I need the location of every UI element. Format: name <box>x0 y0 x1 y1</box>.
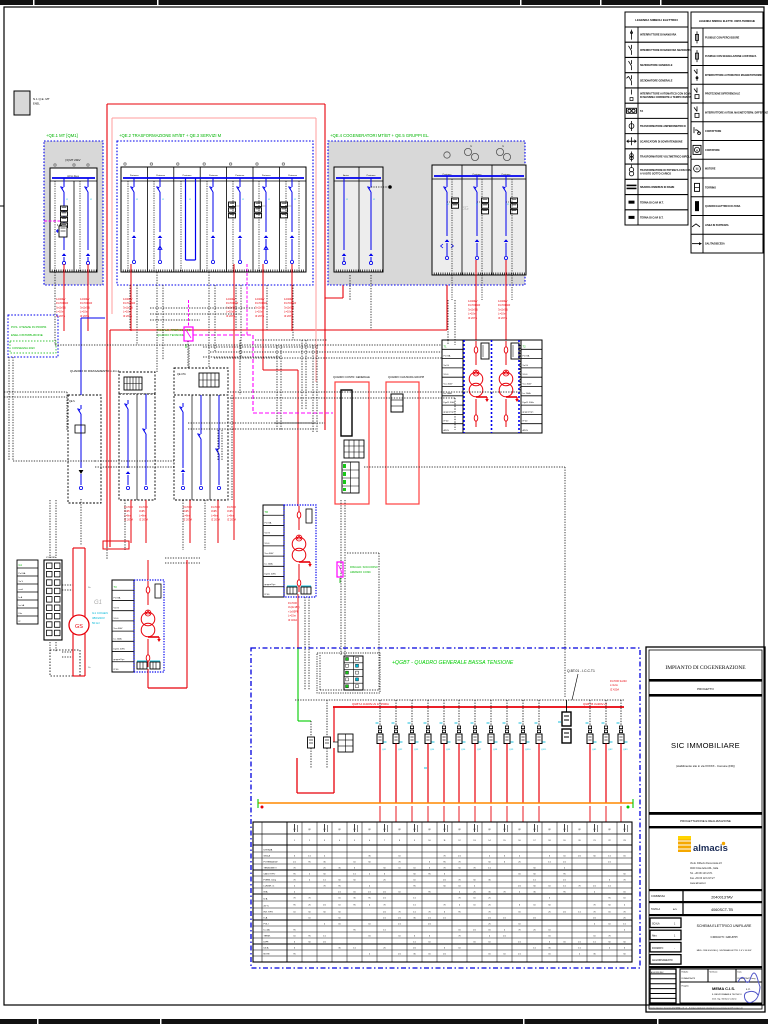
svg-text:Via E. Filiberto Duca Aosta 23: Via E. Filiberto Duca Aosta 23 <box>690 862 722 865</box>
svg-text:AGGIORN./REV.: AGGIORN./REV. <box>651 971 664 974</box>
QE.4 arrivo switch <box>342 178 346 265</box>
svg-text:IP 00: IP 00 <box>444 421 450 423</box>
BT cable drop rif2 <box>139 500 148 543</box>
red MT ring wire right vertical <box>324 104 326 430</box>
svg-text:M: M <box>696 167 699 171</box>
panel QE.RIF body <box>119 394 155 500</box>
QE.2 column aux dashed drops <box>128 181 299 272</box>
svg-text:12/20kV: 12/20kV <box>123 297 133 301</box>
svg-text:IZ 207A: IZ 207A <box>80 314 89 318</box>
QGBT feeder QF8 <box>487 700 499 822</box>
progettazione row <box>649 819 762 828</box>
svg-text:50 Hz: 50 Hz <box>92 621 100 625</box>
MT cable drop QE.1 out2 <box>80 264 92 331</box>
svg-text:12/20kV: 12/20kV <box>498 299 508 303</box>
svg-text:QE.S: QE.S <box>69 400 75 403</box>
svg-text:FUSIBILE CON SEGNALAZIONE A DI: FUSIBILE CON SEGNALAZIONE A DISTANZA <box>705 55 757 58</box>
QGBT feeder QR2 <box>602 700 614 822</box>
svg-text:AGGIORNAMENTO: AGGIORNAMENTO <box>652 959 673 962</box>
svg-text:Vn kV: Vn kV <box>265 533 271 535</box>
svg-text:L=10m: L=10m <box>56 310 64 314</box>
QGBT aux caption <box>567 669 595 700</box>
svg-text:52: 52 <box>268 199 270 201</box>
svg-text:TERM.: TERM. <box>264 936 271 938</box>
QE.2 trafo 1 switch <box>229 178 243 264</box>
svg-text:3x(1x95): 3x(1x95) <box>80 305 90 309</box>
QE.5 generator feeder 2 <box>474 176 489 260</box>
T3 outgoing red loop <box>148 560 187 688</box>
svg-text:Partenza: Partenza <box>235 174 245 177</box>
MT cable drop QE.2 out4 <box>284 264 296 331</box>
svg-text:FORMATO: FORMATO <box>652 947 663 950</box>
svg-text:IZ 207A: IZ 207A <box>139 518 148 522</box>
svg-text:3x(1x95): 3x(1x95) <box>255 305 265 309</box>
svg-text:12/20kV: 12/20kV <box>468 299 478 303</box>
QE.5 generator feeder 1 <box>441 176 459 260</box>
red wire branch to QE.4 <box>325 272 343 298</box>
transformer TR <box>292 506 312 592</box>
BT cable drop uta1 <box>183 500 192 543</box>
trafo bay blue cell borders <box>464 340 519 433</box>
svg-text:Fax +39 06 123 2171/7: Fax +39 06 123 2171/7 <box>690 877 715 880</box>
MT cable drop QE.2 out2 long <box>226 264 238 540</box>
svg-text:LEGENDA SIMBOLI ELETTRICI: LEGENDA SIMBOLI ELETTRICI <box>635 18 678 22</box>
QGBT feeder QF6 <box>455 700 467 822</box>
title impianto <box>649 665 762 682</box>
pink spare ring left <box>111 118 113 314</box>
QE.1 aux dashed wires <box>55 181 80 272</box>
svg-text:gruppo Dyn: gruppo Dyn <box>444 410 456 413</box>
QGBT feeder QF10 <box>519 700 532 822</box>
red MT ring wire top <box>107 103 325 105</box>
svg-text:G1: G1 <box>94 600 102 606</box>
svg-text:FG7OR 3x240: FG7OR 3x240 <box>610 679 627 683</box>
svg-text:CAVO TIPO: CAVO TIPO <box>264 873 276 876</box>
dashed terminal box left <box>50 650 80 676</box>
svg-text:Dyn11 50Hz: Dyn11 50Hz <box>114 649 125 651</box>
BT cable drop uta2 <box>211 500 220 543</box>
generator name <box>88 587 108 669</box>
svg-text:G1: G1 <box>19 563 23 567</box>
svg-text:IZ 207A: IZ 207A <box>498 316 507 320</box>
svg-text:SBARRA OMNIBUS IN RAME: SBARRA OMNIBUS IN RAME <box>640 186 675 189</box>
QGBT earth bus orange <box>258 799 633 808</box>
svg-text:+QGBT - QUADRO GENERALE BASSA: +QGBT - QUADRO GENERALE BASSA TENSIONE <box>392 660 514 666</box>
svg-text:TORRINO: TORRINO <box>705 186 716 189</box>
svg-text:Pn kVA: Pn kVA <box>444 355 451 358</box>
svg-text:UTENZA: UTENZA <box>264 849 273 852</box>
svg-text:Altro: Altro <box>652 935 657 938</box>
svg-text:Vn V: Vn V <box>19 581 24 583</box>
QE.2 riser switch <box>210 178 216 264</box>
svg-text:Dyn11 50Hz: Dyn11 50Hz <box>265 574 276 576</box>
T3 terminal strips <box>137 661 160 669</box>
QGBT feeder QF4 <box>424 700 436 822</box>
svg-text:L=8m: L=8m <box>183 513 190 517</box>
svg-text:QR2: QR2 <box>608 749 613 751</box>
svg-text:52: 52 <box>346 199 348 201</box>
svg-text:Partenza: Partenza <box>130 174 140 177</box>
svg-text:L=12m: L=12m <box>610 683 618 687</box>
svg-text:Vn kV: Vn kV <box>523 365 529 367</box>
svg-text:TA: TA <box>640 110 643 113</box>
svg-text:CONTATORE: CONTATORE <box>705 149 720 152</box>
almacis address <box>690 862 722 885</box>
svg-text:Icc kA: Icc kA <box>19 604 25 607</box>
svg-text:Partenza: Partenza <box>156 174 166 177</box>
svg-text:QR1: QR1 <box>592 749 597 751</box>
QE.2 feeder 2 switch <box>157 178 163 264</box>
svg-text:L=10m: L=10m <box>226 310 234 314</box>
svg-text:Q.BT.01 - I.C.C.T1: Q.BT.01 - I.C.C.T1 <box>567 669 595 673</box>
svg-text:3x95: 3x95 <box>211 509 217 513</box>
MT delivery box <box>14 91 50 115</box>
svg-text:SCARICATORI DI SOVRATENSIONE: SCARICATORI DI SOVRATENSIONE <box>640 140 683 143</box>
svg-text:In A: In A <box>264 917 268 920</box>
fineprint <box>649 1004 762 1010</box>
svg-text:INTERRUTTORE DI MANOVRA: INTERRUTTORE DI MANOVRA <box>640 34 677 37</box>
svg-text:52: 52 <box>294 199 296 201</box>
red wire horizontal mid <box>110 329 447 331</box>
svg-text:TERNA DI CAVI M.T.: TERNA DI CAVI M.T. <box>640 201 664 204</box>
svg-text:FG7OR: FG7OR <box>139 505 148 509</box>
svg-text:CONTATTORE: CONTATTORE <box>705 130 722 133</box>
svg-text:QUADRO ELETTRICO DI ZONA: QUADRO ELETTRICO DI ZONA <box>705 205 741 208</box>
svg-text:QF10: QF10 <box>525 749 531 751</box>
svg-text:MEMA C.I.S.: MEMA C.I.S. <box>712 986 735 991</box>
svg-text:G1 COGEN: G1 COGEN <box>92 611 108 615</box>
legend table: LEGENDA SIMBOLI ELETTRICI <box>625 12 697 225</box>
svg-text:Icc 20kA: Icc 20kA <box>523 392 532 395</box>
QE.1 earth switch detail <box>57 225 67 237</box>
transformer T2 <box>499 341 519 427</box>
legend table: LEGENDA SIMBOLI ELETTRICI UNITA TERMICHE <box>691 12 768 253</box>
red wire feeder from QE.5 col1 <box>446 258 448 330</box>
control panel P4 <box>335 382 369 504</box>
commessa row <box>649 889 762 903</box>
QGBT feeder QF9 <box>503 700 515 822</box>
svg-text:3x95: 3x95 <box>183 509 189 513</box>
svg-text:N.1 Q.E. MT: N.1 Q.E. MT <box>33 97 50 101</box>
svg-text:Partenza: Partenza <box>183 174 193 177</box>
svg-text:gruppo Dyn: gruppo Dyn <box>114 658 126 661</box>
svg-text:52: 52 <box>476 204 478 206</box>
svg-text:Partenza: Partenza <box>209 174 219 177</box>
svg-text:12/20kV: 12/20kV <box>56 297 66 301</box>
svg-text:FG7OH1R: FG7OH1R <box>123 301 135 305</box>
magenta control wire run <box>193 264 333 413</box>
inverter caption <box>157 328 192 337</box>
svg-text:IZ 207A: IZ 207A <box>56 314 65 318</box>
panel QE.UTA body <box>174 395 228 500</box>
bay T3 label panel <box>112 580 134 672</box>
svg-text:Icc 20kA: Icc 20kA <box>444 392 453 395</box>
inverter box <box>184 300 193 348</box>
svg-text:TENSIONE V: TENSIONE V <box>264 868 278 870</box>
svg-text:X1 MORS.: X1 MORS. <box>46 557 57 559</box>
QGBT feeder QF5 <box>440 700 452 822</box>
svg-text:3x(1x95): 3x(1x95) <box>498 307 508 311</box>
svg-text:IZ 207A: IZ 207A <box>226 314 235 318</box>
svg-text:gruppo Dyn: gruppo Dyn <box>265 583 277 586</box>
svg-text:SCHEMA ELETTRICO UNIFILARE: SCHEMA ELETTRICO UNIFILARE <box>697 924 752 928</box>
svg-text:www.almacis.it: www.almacis.it <box>690 882 706 885</box>
svg-text:ARMADIO COND.: ARMADIO COND. <box>350 570 371 574</box>
svg-text:Vcc 400V: Vcc 400V <box>523 384 533 386</box>
panel QE.SERV <box>68 395 101 503</box>
svg-text:TERNA DI CAVI B.T.: TERNA DI CAVI B.T. <box>640 216 664 219</box>
svg-text:52: 52 <box>242 199 244 201</box>
svg-text:Icc 20kA: Icc 20kA <box>114 637 123 640</box>
svg-text:SIGLA: SIGLA <box>264 855 271 858</box>
svg-text:NOTE: NOTE <box>264 954 271 956</box>
cubicle bottom hatching <box>50 270 524 276</box>
svg-text:IZ A: IZ A <box>264 898 268 901</box>
svg-text:SEZIONATORE GENERALE: SEZIONATORE GENERALE <box>640 64 673 67</box>
svg-text:FG7OH1R: FG7OH1R <box>56 301 68 305</box>
svg-text:IB A: IB A <box>264 891 269 894</box>
svg-text:TAVOLA: TAVOLA <box>651 908 660 911</box>
panel QE.2 busbar <box>123 177 304 179</box>
svg-text:52: 52 <box>189 199 191 201</box>
revision table <box>650 969 676 1003</box>
svg-text:Pn kVA: Pn kVA <box>523 355 530 358</box>
svg-text:FUSIBILE CON PERCUSSORE: FUSIBILE CON PERCUSSORE <box>705 36 740 39</box>
svg-text:Vcc 400V: Vcc 400V <box>114 628 124 630</box>
QE.2 bus riser U-link <box>186 178 196 260</box>
QGBT aux bus dotted <box>295 699 624 701</box>
svg-text:A2LN: A2LN <box>444 429 450 432</box>
TR terminal strips <box>287 586 311 594</box>
panel QE.2 cubicle row <box>121 163 306 272</box>
QE.2 trafo 2 switch <box>255 178 269 264</box>
QE.1 incomer switch <box>61 178 65 225</box>
svg-text:s.r.l.: s.r.l. <box>746 988 751 991</box>
svg-text:FG7OH1R: FG7OH1R <box>284 301 296 305</box>
trafo bay left label panel <box>442 340 463 433</box>
QGBT feeder QF3 <box>408 700 420 822</box>
svg-text:IZ 207A: IZ 207A <box>124 518 133 522</box>
sheet top ruler bar <box>0 0 768 5</box>
QGBT main red busbar <box>333 702 624 707</box>
svg-text:[3] MT 20kV: [3] MT 20kV <box>65 158 80 162</box>
svg-text:Dyn11 50Hz: Dyn11 50Hz <box>444 402 455 404</box>
svg-text:Tel. +39 06 123 2171: Tel. +39 06 123 2171 <box>690 872 713 875</box>
generator data table <box>17 560 38 624</box>
svg-text:A2LN: A2LN <box>523 429 529 432</box>
svg-text:Verificato: Verificato <box>710 971 718 974</box>
svg-text:52: 52 <box>136 199 138 201</box>
svg-text:IMPIANTO DI COGENERAZIONE: IMPIANTO DI COGENERAZIONE <box>665 665 746 671</box>
svg-text:FG7OH1R: FG7OH1R <box>226 301 238 305</box>
svg-text:Icc 20kA: Icc 20kA <box>265 562 274 565</box>
trafo bay right label panel <box>521 340 542 433</box>
svg-text:3x95: 3x95 <box>139 509 145 513</box>
svg-text:QGBT.B 3x400V+N: QGBT.B 3x400V+N <box>583 702 607 706</box>
svg-text:L=15m: L=15m <box>288 614 296 618</box>
QE.1 interlock wire magenta <box>44 220 60 222</box>
QGBT feeder QR3 <box>617 700 629 822</box>
QE.1 CT stack <box>57 206 68 250</box>
svg-text:2040013TAV: 2040013TAV <box>711 896 733 900</box>
svg-text:IZ 207A: IZ 207A <box>227 518 236 522</box>
svg-text:CONSEGNA 20kV: CONSEGNA 20kV <box>12 346 35 350</box>
bay T3 cell <box>134 580 164 672</box>
svg-text:Arrivo: Arrivo <box>343 174 349 177</box>
svg-text:DI MASSIMA CORRENTE A TEMPO IN: DI MASSIMA CORRENTE A TEMPO INVERSO <box>640 96 694 99</box>
QGBT feeder QR1 <box>586 700 598 822</box>
svg-text:RISCALD. SOCCORSO: RISCALD. SOCCORSO <box>350 565 378 569</box>
svg-text:f Hz: f Hz <box>19 613 23 615</box>
terminal strip board <box>44 557 62 640</box>
svg-text:SEZIONATORE GENERALE: SEZIONATORE GENERALE <box>640 79 673 82</box>
generator GS <box>69 615 89 635</box>
svg-text:FORM. mmq: FORM. mmq <box>264 880 277 882</box>
control panel P5 <box>386 382 419 504</box>
TR green feed to QGBT <box>298 648 311 721</box>
svg-text:INTERRUTTORE AUTOM. MAGNETOTER: INTERRUTTORE AUTOM. MAGNETOTERM. DIFFERE… <box>705 111 768 114</box>
svg-text:QUADRO DI RIFASAMENTO n.1/n.2: QUADRO DI RIFASAMENTO n.1/n.2 <box>70 369 120 373</box>
svg-text:3x(1x95): 3x(1x95) <box>56 305 66 309</box>
panel QE.2 enclosure <box>117 141 313 285</box>
svg-text:12/20kV: 12/20kV <box>80 297 90 301</box>
svg-text:V% 6: V% 6 <box>114 618 120 620</box>
svg-text:IZ 207A: IZ 207A <box>284 314 293 318</box>
svg-text:ENEL: ENEL <box>33 102 40 106</box>
svg-text:LUNGH. m: LUNGH. m <box>264 886 275 888</box>
svg-text:12/20kV: 12/20kV <box>226 297 236 301</box>
svg-text:3x(1x95): 3x(1x95) <box>226 305 236 309</box>
svg-text:FG7OH1R: FG7OH1R <box>80 301 92 305</box>
QGBT bus riser breaker <box>558 700 571 743</box>
title block frame <box>646 647 765 1012</box>
svg-text:ROMA/3TA4TF: ROMA/3TA4TF <box>682 977 696 980</box>
svg-text:L=10m: L=10m <box>498 312 506 316</box>
svg-text:INT. TIPO: INT. TIPO <box>264 912 274 914</box>
QGBT feeder QF1 <box>376 700 388 822</box>
QGBT incoming terminal block <box>317 653 380 693</box>
blue feed wire <box>81 318 105 400</box>
svg-text:L=10m: L=10m <box>80 310 88 314</box>
QE.5 cubicle group 2 <box>432 165 526 275</box>
svg-text:IZ 400A: IZ 400A <box>288 618 297 622</box>
svg-text:3x(1x95): 3x(1x95) <box>123 305 133 309</box>
QE.1 feeder arrows <box>62 253 66 264</box>
QE.4 cubicle group 1 <box>334 167 383 272</box>
panel QE.1 MT enclosure <box>44 141 103 285</box>
svg-text:Vn kV: Vn kV <box>114 608 120 610</box>
svg-text:IZ 207A: IZ 207A <box>211 518 220 522</box>
svg-text:FG7OH1R: FG7OH1R <box>498 303 510 307</box>
svg-text:Progetto: Progetto <box>682 985 689 988</box>
svg-text:52: 52 <box>373 199 375 201</box>
svg-text:MOTORE: MOTORE <box>705 168 716 171</box>
svg-text:POS. UTENZE IN PROPR.: POS. UTENZE IN PROPR. <box>11 325 47 329</box>
pink spare ring top <box>112 117 316 119</box>
cogen trafo bay block <box>442 340 542 433</box>
svg-text:+1x95PE: +1x95PE <box>288 609 299 613</box>
svg-text:Vcc 400V: Vcc 400V <box>444 384 454 386</box>
QGBT metering block <box>333 734 353 752</box>
svg-text:GS: GS <box>75 624 83 630</box>
utility note box <box>8 315 58 357</box>
svg-text:IZ 207A: IZ 207A <box>183 518 192 522</box>
svg-text:gruppo Dyn: gruppo Dyn <box>523 410 535 413</box>
svg-text:QUADRO CONTR. GENERALE: QUADRO CONTR. GENERALE <box>333 375 370 379</box>
svg-text:IZ 207A: IZ 207A <box>468 316 477 320</box>
svg-text:QGBT.A 3x400V+N In=2500A: QGBT.A 3x400V+N In=2500A <box>352 702 389 706</box>
QE.5 generator feeder 3 <box>503 176 518 260</box>
approvals <box>680 969 762 1003</box>
sheet bottom ruler bar <box>0 1019 768 1024</box>
QE.4 partenza switch <box>368 178 392 265</box>
svg-text:SALITA/DISCESA: SALITA/DISCESA <box>705 243 725 246</box>
progetto row <box>649 687 762 697</box>
QE.1 outgoing switch <box>85 178 91 265</box>
svg-text:FG7OH1R: FG7OH1R <box>468 303 480 307</box>
svg-text:In A: In A <box>19 596 23 599</box>
svg-text:IP 00: IP 00 <box>523 421 529 423</box>
panel QE.RIF header <box>119 372 155 394</box>
MT cable drop QE.1 out1 <box>56 264 68 331</box>
svg-text:380/220V: 380/220V <box>92 616 105 620</box>
svg-text:+QE.1 MT [QM1]: +QE.1 MT [QM1] <box>46 133 78 138</box>
svg-text:INTERRUTTORE DI MANOVRA SEZION: INTERRUTTORE DI MANOVRA SEZIONATORE <box>640 49 695 52</box>
svg-text:52: 52 <box>507 204 509 206</box>
svg-text:POTENZA kW: POTENZA kW <box>264 861 279 864</box>
svg-text:3x95: 3x95 <box>227 509 233 513</box>
MT cable drop QE.2 in <box>123 264 135 331</box>
svg-text:ENEL DISTRIBUZIONE: ENEL DISTRIBUZIONE <box>11 333 43 337</box>
drawing description <box>649 918 762 968</box>
panel QE.1 inner cubicle <box>50 158 97 272</box>
svg-text:L=10m: L=10m <box>255 310 263 314</box>
QGBT feeder QF2 <box>392 700 404 822</box>
svg-text:L=8m: L=8m <box>227 513 234 517</box>
svg-text:52: 52 <box>90 199 92 201</box>
svg-text:L=8m: L=8m <box>139 513 146 517</box>
red wire parallel vertical <box>109 330 111 547</box>
svg-text:MED. CRE 434 KELQ. SISTEMA ELE: MED. CRE 434 KELQ. SISTEMA ELETTR. 2.0 V… <box>697 949 753 952</box>
svg-text:V% 6: V% 6 <box>523 374 529 376</box>
svg-text:Vcc 400V: Vcc 400V <box>265 553 275 555</box>
svg-text:V% 6: V% 6 <box>444 374 450 376</box>
QGBT enclosure <box>251 648 640 968</box>
svg-text:Pn kVA: Pn kVA <box>114 596 121 599</box>
svg-text:INTERRUTTORE AUTOMATICO MAGNET: INTERRUTTORE AUTOMATICO MAGNETOTERMICO <box>705 74 764 77</box>
QGBT feeder QF11 <box>535 700 548 822</box>
svg-text:QR3: QR3 <box>623 749 628 751</box>
svg-text:FG7OR: FG7OR <box>227 505 236 509</box>
QE.2 trafo 3 switch <box>281 178 295 264</box>
MT cable drop cogen trafo 2 <box>498 260 510 341</box>
QGBT cable label right <box>610 679 627 691</box>
svg-text:3x(2x185): 3x(2x185) <box>288 605 300 609</box>
panel QE.UTA header <box>174 368 228 395</box>
red junction loop box <box>103 541 129 549</box>
svg-text:Icu kA: Icu kA <box>264 929 271 932</box>
svg-text:FG7OR: FG7OR <box>288 601 297 605</box>
svg-text:TR: TR <box>265 510 269 514</box>
svg-text:PROTEZIONE DIFFERENZIALE: PROTEZIONE DIFFERENZIALE <box>705 93 740 96</box>
svg-text:QUADRO TENSIONE: QUADRO TENSIONE <box>157 333 184 337</box>
QE.5 aux dashed drops <box>452 179 512 300</box>
QGBT feeder QF7 <box>471 700 483 822</box>
svg-text:IP 00: IP 00 <box>114 669 120 671</box>
MT cable drop QE.2 to trafo bay <box>255 264 298 648</box>
svg-text:IZ 420A: IZ 420A <box>610 687 619 691</box>
QE.5 generator circles <box>444 144 511 161</box>
